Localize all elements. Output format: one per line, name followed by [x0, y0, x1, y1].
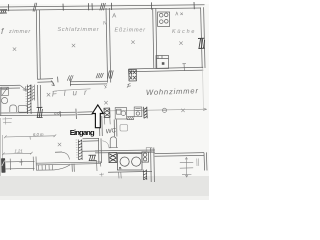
svg-text:Eingang: Eingang [70, 128, 95, 137]
svg-text:zimmer: zimmer [8, 29, 31, 35]
svg-text:6,0 m: 6,0 m [33, 132, 44, 137]
svg-text:WC: WC [105, 127, 117, 135]
svg-text:Schlafzimmer: Schlafzimmer [58, 27, 100, 33]
svg-text:Wohnzimmer: Wohnzimmer [146, 86, 199, 97]
svg-text:Küche: Küche [172, 29, 195, 35]
svg-text:1,21: 1,21 [15, 149, 23, 154]
svg-text:Eßzimmer: Eßzimmer [115, 28, 146, 34]
